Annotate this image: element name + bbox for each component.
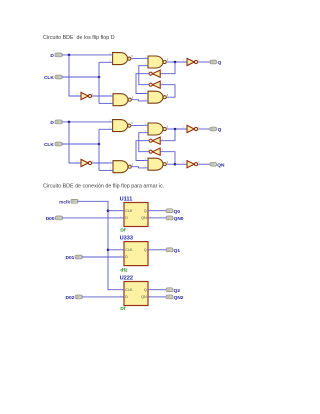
inverter D-bar (FF2) [76, 159, 94, 166]
terminal CLK input (FF2) [55, 142, 62, 146]
wire CLK to G2 pin2 (FF2) [99, 169, 109, 171]
svg-text:QN0: QN0 [174, 216, 184, 222]
svg-text:QN2: QN2 [174, 295, 184, 301]
svg-text:U222: U222 [120, 275, 133, 281]
inverter D-bar (FF1) [76, 92, 94, 99]
wire clock bus to U111 CLK [108, 210, 120, 212]
wire D to gate G1 pin1 (FF1) [62, 54, 109, 56]
wire Q inverter to terminal (FF1) [198, 61, 210, 63]
wire feedback inverter 2 out to G3 pin2 (FF1) [139, 66, 150, 85]
wire D vertical to inverter (FF2) [69, 122, 81, 163]
NAND gate G3 latch-top (FF2) [144, 123, 169, 135]
feedback inverter 1 (FF1) [148, 70, 164, 77]
terminal Q1 output [166, 248, 173, 252]
svg-text:Q: Q [144, 288, 147, 292]
svg-text:QN: QN [141, 295, 147, 299]
svg-text:CLK: CLK [44, 75, 54, 81]
junction node QNint (FF2) [174, 163, 177, 166]
terminal QN output (FF2) [210, 162, 217, 166]
flip-flop IC U222 [120, 282, 153, 306]
svg-text:Df: Df [120, 306, 125, 312]
terminal D01 input [75, 255, 82, 259]
wire feedback inverter 2 out to G3 pin2 (FF2) [139, 133, 150, 152]
output inverter Q (FF2) [182, 125, 200, 132]
flip-flop IC U111 [120, 203, 153, 227]
svg-text:D00: D00 [46, 216, 55, 222]
junction node Qint (FF1) [174, 61, 177, 64]
terminal D00 input [55, 216, 62, 220]
NAND gate G2 Dbar·CLK (FF1) [109, 94, 134, 106]
svg-text:Q: Q [218, 60, 222, 66]
svg-text:QN: QN [141, 216, 147, 220]
wire mclk to clock bus [77, 201, 119, 289]
wire G1 out to G3 pin1 (FF1) [134, 57, 145, 59]
wire G3 out to output node (FF1) [169, 61, 186, 63]
output inverter Q (FF1) [182, 58, 200, 65]
NAND gate G1 D·CLK (FF1) [109, 53, 134, 65]
NAND gate G4 latch-bottom (FF1) [144, 91, 169, 103]
NAND gate G3 latch-top (FF1) [144, 56, 169, 68]
wire inverter out to G2 pin1 (FF2) [92, 162, 110, 164]
wire U222 Q to Q2 [153, 289, 167, 291]
svg-text:df2: df2 [120, 267, 128, 273]
svg-text:D: D [50, 53, 54, 59]
terminal D02 input [75, 295, 82, 299]
svg-text:CLK: CLK [44, 142, 54, 148]
svg-text:D: D [50, 120, 54, 126]
wire G2 out to G4 pin2 (FF1) [134, 100, 144, 101]
wire U333 Q to Q1 [153, 249, 167, 251]
svg-text:Q: Q [144, 209, 147, 213]
svg-text:D: D [125, 216, 128, 220]
NAND gate G4 latch-bottom (FF2) [144, 158, 169, 170]
wire CLK to bus (FF2) [62, 143, 99, 145]
wire D vertical to inverter (FF1) [69, 55, 81, 96]
terminal Q2 output [166, 288, 173, 292]
svg-text:CLK: CLK [125, 248, 133, 252]
wire U111 Q to Q0 [153, 210, 167, 212]
junction clock bus at U333 [107, 249, 110, 252]
svg-text:D: D [125, 295, 128, 299]
svg-text:U111: U111 [120, 196, 133, 202]
svg-text:QN: QN [217, 162, 225, 168]
wire QNint to QN inverter (FF2) [175, 163, 187, 165]
wire Qint down to feedback inverter 1 input (FF1) [160, 62, 175, 74]
wire G2 out to G4 pin2 (FF2) [134, 167, 144, 168]
terminal QN2 output [166, 295, 173, 299]
wire inverter out to G2 pin1 (FF1) [92, 95, 110, 97]
wire Q inverter to terminal (FF2) [198, 128, 210, 130]
wire Qint down to feedback inverter 1 input (FF2) [160, 129, 175, 141]
junction node CLK (FF2) [98, 143, 101, 146]
NAND gate G1 D·CLK (FF2) [109, 120, 134, 132]
wire feedback inverter 1 out to G4 pin1 (FF1) [136, 74, 150, 94]
terminal Q0 output [166, 209, 173, 213]
feedback inverter 2 (FF1) [148, 81, 164, 88]
wire D01 to U333 D [82, 256, 120, 258]
terminal mclk input [71, 199, 78, 203]
wire G4 out up to feedback inverter 2 input (FF1) [160, 85, 175, 98]
svg-text:Q1: Q1 [174, 248, 181, 254]
wire G1 out to G3 pin1 (FF2) [134, 124, 145, 126]
NAND gate G2 Dbar·CLK (FF2) [109, 161, 134, 173]
terminal D input (FF1) [55, 53, 62, 57]
wire CLK to G2 pin2 (FF1) [99, 102, 109, 104]
svg-text:U333: U333 [120, 235, 133, 241]
svg-text:mclk: mclk [59, 199, 70, 205]
wire U111 QN to QN0 [153, 217, 167, 219]
svg-text:Q2: Q2 [174, 288, 181, 294]
wire CLK to G1 pin2 (FF2) [99, 128, 109, 130]
wire U222 QN to QN2 [153, 296, 167, 298]
terminal D input (FF2) [55, 120, 62, 124]
svg-text:Df: Df [120, 228, 125, 234]
svg-text:Q: Q [218, 127, 222, 133]
junction clock bus at U111 [107, 209, 110, 212]
svg-text:CLK: CLK [125, 288, 133, 292]
terminal Q output (FF1) [210, 60, 217, 64]
wire feedback inverter 1 out to G4 pin1 (FF2) [136, 141, 150, 161]
wire QN inverter to terminal (FF2) [198, 163, 210, 165]
terminal Q output (FF2) [210, 127, 217, 131]
wire CLK to G1 pin2 (FF1) [99, 61, 109, 63]
wire D to gate G1 pin1 (FF2) [62, 121, 109, 123]
flip-flop IC U333 [120, 242, 153, 266]
svg-text:D02: D02 [65, 295, 74, 301]
junction node CLK (FF1) [98, 76, 101, 79]
wire G4 out up to feedback inverter 2 input (FF2) [160, 152, 175, 165]
svg-text:D01: D01 [65, 255, 74, 261]
svg-text:Circuito BDE de conexión de fl: Circuito BDE de conexión de flip flop pa… [43, 183, 164, 189]
svg-text:CLK: CLK [125, 209, 133, 213]
feedback inverter 1 (FF2) [148, 137, 164, 144]
wire D02 to U222 D [82, 296, 120, 298]
terminal QN0 output [166, 216, 173, 220]
svg-text:Q: Q [144, 248, 147, 252]
wire clock bus to U333 CLK [108, 249, 120, 251]
output inverter QN (FF2) [182, 161, 200, 168]
svg-text:Q0: Q0 [174, 209, 181, 215]
junction node D (FF1) [68, 54, 71, 57]
feedback inverter 2 (FF2) [148, 148, 164, 155]
junction node Qint (FF2) [174, 128, 177, 131]
junction node D (FF2) [68, 121, 71, 124]
terminal CLK input (FF1) [55, 75, 62, 79]
svg-text:Circuito BDE de los flip flop: Circuito BDE de los flip flop D [43, 35, 115, 41]
wire CLK vertical bus (FF1) [98, 62, 100, 103]
svg-text:D: D [125, 255, 128, 259]
wire CLK vertical bus (FF2) [98, 129, 100, 170]
wire G3 out to output node (FF2) [169, 128, 186, 130]
wire CLK to bus (FF1) [62, 76, 99, 78]
wire D00 to U111 D [62, 217, 120, 219]
